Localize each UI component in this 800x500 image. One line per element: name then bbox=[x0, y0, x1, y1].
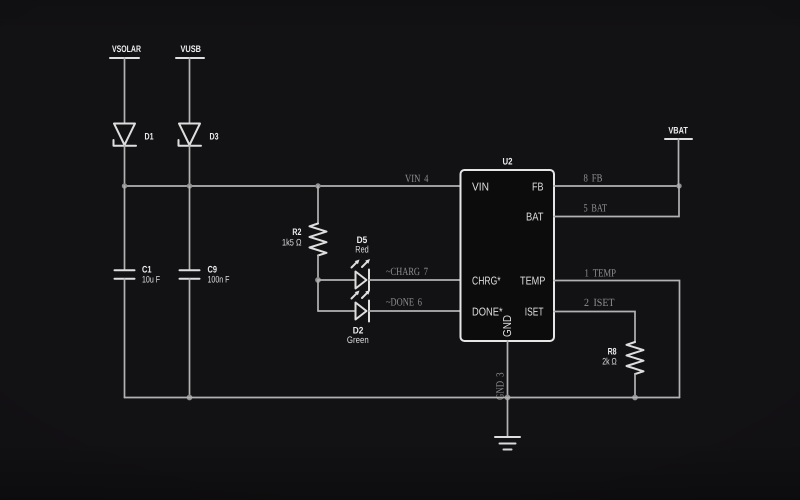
wire node to D5 anode bbox=[318, 279, 356, 281]
capacitor C9 bbox=[180, 265, 230, 286]
wire node to C1 bbox=[124, 186, 126, 270]
wire node to R2 bbox=[317, 186, 319, 224]
wire R2 to LED node bbox=[317, 256, 319, 281]
wire D2 to DONE pin bbox=[369, 310, 461, 312]
wire VSOLAR to D1 bbox=[124, 58, 126, 123]
wire R8 to gnd rail bbox=[634, 374, 636, 398]
junction node at R2 top bbox=[315, 183, 320, 188]
wire GND node to ground symbol bbox=[507, 398, 509, 438]
diode D1 bbox=[114, 124, 155, 146]
wire U2 GND pin down bbox=[507, 341, 509, 398]
resistor R8 2k bbox=[602, 342, 643, 374]
wire TEMP to gnd rail bbox=[554, 281, 680, 398]
power symbol VSOLAR bbox=[110, 44, 141, 58]
capacitor C1 bbox=[115, 265, 161, 286]
wire node to C9 bbox=[189, 186, 191, 270]
junction node GND bbox=[505, 395, 511, 401]
wire C9 to gnd rail bbox=[189, 279, 191, 398]
wire to D2 anode bbox=[318, 310, 356, 312]
wire VUSB to D3 bbox=[189, 58, 191, 123]
LED D2 Green bbox=[347, 290, 370, 346]
power symbol VBAT bbox=[665, 126, 692, 140]
junction node at D1/C1 bbox=[122, 183, 127, 188]
wire VBAT to node bbox=[678, 139, 680, 186]
resistor R2 1k5 bbox=[282, 224, 327, 256]
ground bbox=[495, 437, 520, 450]
wire D1 to node bbox=[124, 146, 126, 186]
wire ISET to R8 bbox=[554, 312, 635, 343]
wire VIN rail bbox=[125, 185, 461, 187]
op-amp U2 charger IC body bbox=[461, 157, 555, 342]
power symbol VUSB bbox=[176, 44, 204, 58]
junction node C9/gnd bbox=[187, 395, 193, 401]
junction node LED branch bbox=[315, 277, 321, 283]
wire FB to VBAT node bbox=[554, 185, 679, 187]
wire ground rail bbox=[125, 397, 680, 399]
junction node R8/gnd bbox=[632, 395, 638, 401]
wire node down to D2 bbox=[317, 280, 319, 311]
wire C1 to gnd rail bbox=[124, 279, 126, 398]
wire BAT to VBAT node bbox=[554, 186, 679, 217]
wire D3 to node bbox=[189, 146, 191, 186]
LED D5 Red bbox=[352, 235, 371, 290]
diode D3 bbox=[179, 124, 219, 146]
wire D5 to CHRG pin bbox=[369, 279, 461, 281]
junction node at D3/C9 bbox=[187, 183, 192, 188]
junction node VBAT bbox=[676, 183, 681, 188]
